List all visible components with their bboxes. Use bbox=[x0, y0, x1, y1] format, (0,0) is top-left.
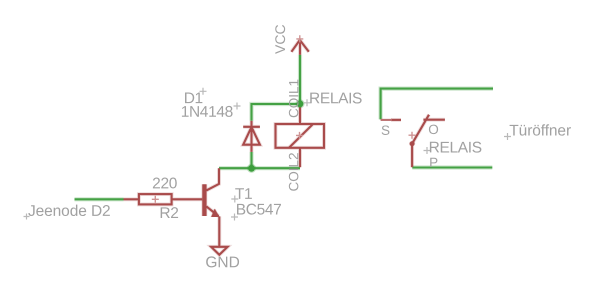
svg-text:R2: R2 bbox=[159, 205, 178, 222]
svg-text:RELAIS: RELAIS bbox=[429, 139, 482, 156]
svg-text:GND: GND bbox=[205, 254, 239, 271]
svg-text:O: O bbox=[428, 122, 439, 137]
svg-text:BC547: BC547 bbox=[236, 201, 282, 218]
svg-text:1N4148: 1N4148 bbox=[181, 104, 233, 121]
svg-text:P: P bbox=[429, 155, 438, 170]
svg-text:COIL1: COIL1 bbox=[286, 79, 301, 118]
svg-text:RELAIS: RELAIS bbox=[309, 90, 362, 107]
svg-text:Türöffner: Türöffner bbox=[509, 122, 571, 139]
svg-text:S: S bbox=[381, 123, 390, 138]
svg-text:T1: T1 bbox=[235, 186, 252, 203]
svg-text:220: 220 bbox=[152, 175, 178, 192]
svg-text:COIL2: COIL2 bbox=[286, 152, 301, 191]
svg-text:VCC: VCC bbox=[272, 24, 288, 54]
svg-text:Jeenode D2: Jeenode D2 bbox=[28, 203, 111, 220]
